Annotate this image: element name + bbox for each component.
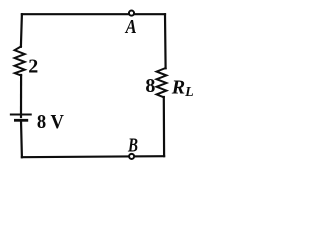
svg-text:A: A (124, 16, 137, 38)
battery V1 short plate (15, 119, 26, 122)
terminal B (open circle) (129, 154, 134, 159)
resistor RL zigzag (157, 68, 167, 97)
svg-text:8: 8 (145, 75, 155, 97)
resistor R1 2-ohm zigzag (15, 47, 25, 76)
wire bottom (node B rail) (22, 156, 164, 157)
wire right upper (164, 14, 167, 68)
terminal A (open circle) (129, 11, 134, 16)
wire left lower (battery to bottom corner) (20, 120, 23, 157)
svg-text:8 V: 8 V (37, 111, 65, 133)
svg-text:B: B (127, 134, 138, 156)
svg-text:2: 2 (28, 55, 38, 77)
wire top (node A rail) (22, 13, 165, 15)
wire right lower (163, 97, 166, 156)
battery V1 long plate (11, 114, 31, 116)
wire left upper (21, 14, 22, 47)
wire left middle (resistor to battery) (20, 75, 22, 117)
